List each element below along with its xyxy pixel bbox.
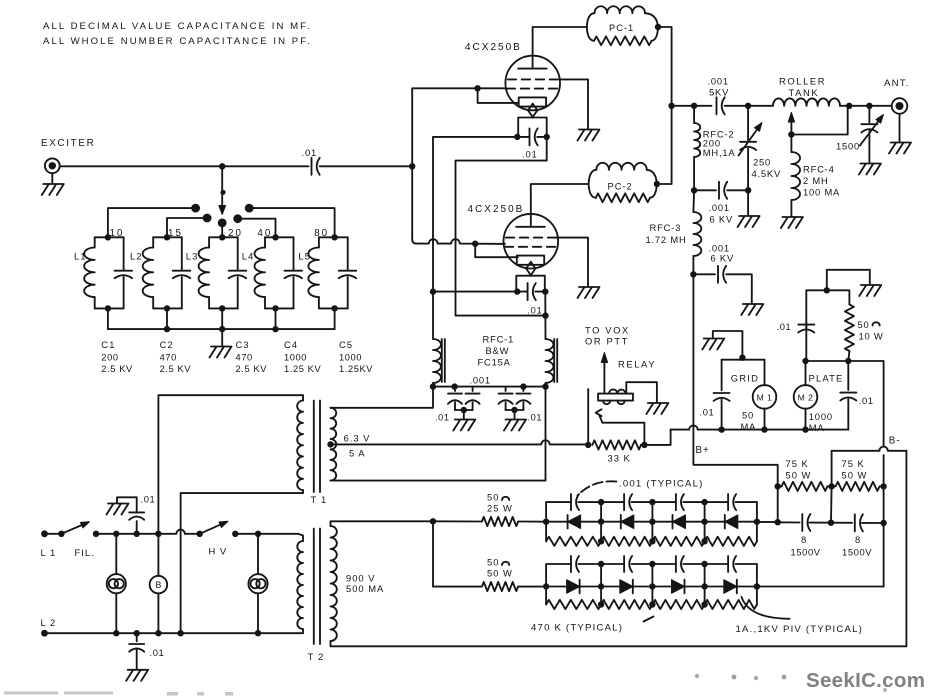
svg-text:.001: .001 bbox=[470, 375, 491, 386]
svg-text:.01: .01 bbox=[302, 148, 318, 159]
tube control grid (dashed) bbox=[507, 88, 558, 90]
wire V2 filament left lead bbox=[433, 291, 517, 293]
svg-text:5 A: 5 A bbox=[349, 448, 366, 459]
wire L1 to FIL switch bbox=[45, 533, 62, 535]
node bleeder mid bbox=[828, 483, 834, 489]
node filter mid bbox=[828, 520, 834, 526]
capacitor .01 line bypass upper bbox=[136, 521, 138, 534]
node tune cap tap bbox=[745, 103, 751, 109]
lamp I2 pilot bbox=[257, 534, 259, 574]
wire B- rail bbox=[883, 361, 885, 587]
tube V 4CX250B envelope bbox=[505, 56, 560, 111]
inductor roller tank bbox=[773, 98, 840, 105]
wire center tap bus (hop at 545.5) bbox=[331, 440, 589, 444]
svg-text:1500V: 1500V bbox=[791, 547, 821, 558]
wire V2 screen to ground bbox=[557, 238, 588, 286]
svg-text:.01: .01 bbox=[435, 413, 450, 423]
svg-text:50: 50 bbox=[487, 557, 499, 568]
transformer T2 primary winding bbox=[298, 534, 303, 541]
connector J1 EXCITER jack bbox=[45, 158, 60, 173]
svg-text:.01: .01 bbox=[859, 395, 874, 406]
svg-text:L1: L1 bbox=[74, 252, 87, 263]
node 33K left / relay bbox=[585, 442, 591, 448]
svg-text:50: 50 bbox=[858, 319, 870, 330]
svg-text:6 KV: 6 KV bbox=[711, 253, 735, 264]
svg-text:2 MH: 2 MH bbox=[803, 175, 829, 186]
capacitor .01 line bypass lower bbox=[136, 633, 138, 641]
capacitor .001 6KV bypass upper bbox=[694, 189, 716, 191]
svg-text:50: 50 bbox=[742, 410, 754, 421]
wire string right end bbox=[756, 564, 758, 605]
wire lower rectifier output to B- bbox=[757, 586, 884, 588]
svg-text:50 W: 50 W bbox=[487, 568, 513, 579]
switch contact 40 bbox=[233, 214, 242, 223]
wire V1 anode stem to PC-1 bbox=[533, 27, 587, 69]
relay contact bbox=[596, 409, 602, 416]
wire T2 secondary bottom lead bbox=[331, 451, 907, 647]
tube plate bar bbox=[518, 68, 547, 70]
wire cap to roller tank bbox=[725, 105, 773, 107]
wire rectifier resistor row (470K chain) bbox=[546, 600, 757, 609]
ground lower bypass bbox=[741, 304, 763, 315]
wire junction column bbox=[704, 502, 706, 541]
svg-text:L5: L5 bbox=[298, 252, 311, 263]
wire tank L3 to bottom bus bbox=[221, 308, 223, 329]
capacitor 8MF 1500V right bbox=[831, 522, 852, 524]
tube cathode box bbox=[517, 256, 544, 265]
svg-text:1.25KV: 1.25KV bbox=[339, 364, 373, 374]
capacitor C 250 4.5KV tune (variable) bbox=[747, 106, 749, 141]
resistor 50ohm 10W bbox=[848, 351, 849, 361]
watermark dots bbox=[695, 674, 699, 678]
ground V2 screen bbox=[578, 287, 600, 298]
transformer T1 core bbox=[314, 401, 320, 493]
diode D 1A 1KV PIV bbox=[632, 580, 634, 594]
capacitor .01 grid meter bbox=[721, 360, 723, 391]
ground line bypass upper bbox=[107, 504, 129, 515]
wire tank bottom bus bbox=[108, 328, 335, 330]
svg-text:1500V: 1500V bbox=[842, 547, 872, 558]
wire B+ diode bus to filter bbox=[757, 521, 778, 523]
transformer T2 secondary winding 900V bbox=[331, 526, 337, 641]
wire RFC-1 bottom bar bbox=[433, 386, 546, 388]
ground at exciter jack bbox=[51, 173, 53, 183]
svg-text:MA: MA bbox=[809, 422, 825, 433]
diode D 1A 1KV PIV bbox=[672, 515, 674, 529]
switch S1 pole arrow bbox=[219, 206, 226, 215]
capacitor .001 across diode 4 bbox=[705, 563, 729, 565]
svg-text:1000: 1000 bbox=[339, 353, 362, 363]
roller wiper arrow bbox=[790, 122, 792, 135]
diode D 1A 1KV PIV bbox=[724, 515, 726, 529]
transformer T1 primary lead top bbox=[158, 395, 303, 534]
node filament left join bbox=[430, 288, 436, 294]
tube filament bbox=[526, 262, 535, 269]
wire filter mid to bleeder mid bbox=[830, 486, 833, 522]
diode D 1A 1KV PIV bbox=[579, 580, 581, 594]
svg-text:B-: B- bbox=[889, 435, 901, 446]
svg-text:C2: C2 bbox=[160, 340, 174, 350]
suppressor PC-2 coil bbox=[589, 170, 597, 184]
resistor 75K 50W right bbox=[832, 482, 880, 491]
svg-text:GRID: GRID bbox=[731, 372, 759, 383]
svg-text:ALL DECIMAL VALUE CAPACITANCE: ALL DECIMAL VALUE CAPACITANCE IN MF. bbox=[43, 21, 312, 32]
wire tank L2 to bottom bus bbox=[166, 308, 168, 329]
svg-text:900 V: 900 V bbox=[346, 573, 376, 584]
wire V2 grid to cathode frame bbox=[475, 244, 517, 258]
wire string left end bbox=[545, 564, 547, 605]
svg-text:FC15A: FC15A bbox=[478, 357, 511, 368]
node plate RC top bbox=[824, 287, 830, 293]
wire relay coil to ground bbox=[626, 382, 657, 402]
lamp I1 pilot bbox=[115, 534, 117, 574]
capacitor .01 plate meter upper bbox=[805, 322, 807, 361]
switch contact 10 bbox=[191, 204, 200, 213]
wire junction column bbox=[651, 502, 653, 541]
wire V1 filament right lead bbox=[456, 137, 547, 316]
svg-text:ROLLER: ROLLER bbox=[779, 76, 826, 87]
svg-text:8: 8 bbox=[855, 534, 861, 545]
svg-text:250: 250 bbox=[753, 156, 771, 167]
wire PC-2 to plate rail bbox=[657, 106, 672, 184]
transformer T1 primary lead bottom bbox=[181, 493, 303, 633]
svg-text:50: 50 bbox=[487, 492, 499, 503]
resistor 50ohm 50W bbox=[433, 521, 482, 586]
meter B bbox=[157, 534, 159, 576]
wire plate line bbox=[672, 105, 712, 107]
capacitor .001 5KV plate blocking bbox=[716, 97, 718, 114]
choke RFC-1 right core bbox=[554, 339, 557, 382]
choke RFC-1 right winding bbox=[546, 339, 554, 383]
page caption remnant bbox=[4, 692, 233, 696]
svg-text:75 K: 75 K bbox=[842, 458, 865, 469]
node RFC-2/RFC-3 junction bbox=[691, 187, 697, 193]
wire PLATE meter top bar (B-) bbox=[806, 360, 884, 362]
wire contact80 to tank5 bbox=[249, 208, 334, 237]
wire contact20 to tank3 bbox=[221, 223, 223, 237]
svg-text:SeekIC.com: SeekIC.com bbox=[806, 669, 925, 692]
diode D 1A 1KV PIV bbox=[567, 515, 569, 529]
capacitor .001 across diode 1 bbox=[546, 501, 571, 503]
suppressor PC-1 resistor bbox=[587, 27, 594, 41]
transformer T2 core bbox=[314, 529, 320, 645]
svg-text:B+: B+ bbox=[696, 445, 710, 456]
svg-text:ANT.: ANT. bbox=[884, 78, 910, 89]
wire tank L1 to bottom bus bbox=[107, 308, 109, 329]
svg-text:B&W: B&W bbox=[486, 345, 510, 356]
svg-text:C3: C3 bbox=[236, 340, 250, 350]
terminal L2 bbox=[41, 630, 48, 637]
svg-text:200: 200 bbox=[101, 353, 118, 363]
capacitor C 1500 load (variable) bbox=[868, 106, 870, 123]
svg-text:6.3 V: 6.3 V bbox=[344, 433, 371, 444]
tube plate bar bbox=[516, 226, 545, 228]
svg-text:H V: H V bbox=[209, 546, 228, 557]
node V1 grid junction bbox=[474, 85, 480, 91]
svg-text:C5: C5 bbox=[339, 340, 353, 350]
svg-text:1.25 KV: 1.25 KV bbox=[284, 364, 321, 374]
tube screen grid (dashed) bbox=[508, 78, 559, 80]
svg-text:M 2: M 2 bbox=[798, 393, 814, 403]
svg-text:.01: .01 bbox=[141, 494, 156, 505]
wire cap to grid node bbox=[320, 165, 413, 167]
svg-text:50 W: 50 W bbox=[786, 470, 812, 481]
ground relay coil bbox=[646, 403, 668, 414]
node exciter/switch junction bbox=[219, 163, 225, 169]
svg-text:2.5 KV: 2.5 KV bbox=[236, 364, 268, 374]
svg-text:B: B bbox=[155, 580, 161, 590]
svg-text:.001: .001 bbox=[709, 202, 730, 213]
wire V1 screen to ground bbox=[560, 79, 588, 128]
capacitor .001 6KV bypass lower bbox=[693, 273, 715, 275]
svg-text:PLATE: PLATE bbox=[809, 372, 844, 383]
wire exciter line bbox=[60, 165, 309, 167]
capacitor .01 bypass pair bbox=[505, 387, 507, 391]
suppressor PC-1 coil bbox=[587, 13, 595, 27]
ground load cap bbox=[859, 164, 881, 175]
wire 6.3V top lead to RFC-1 bbox=[331, 387, 434, 408]
capacitor C5 tank cap bbox=[347, 237, 349, 269]
svg-text:4CX250B: 4CX250B bbox=[465, 42, 522, 53]
node HV switch output bbox=[232, 531, 238, 537]
terminal L1 bbox=[41, 530, 48, 537]
wire tank L3 top/bottom edges bbox=[209, 236, 238, 238]
wire junction column bbox=[651, 564, 653, 605]
node grid top bbox=[739, 355, 745, 361]
wire relay contact to 33K bbox=[600, 416, 645, 445]
ground line bypass lower bbox=[126, 670, 148, 681]
svg-text:100 MA: 100 MA bbox=[803, 187, 840, 198]
ground grid return bbox=[702, 339, 724, 350]
choke RFC-1 left winding bbox=[433, 339, 441, 383]
wire rectifier diode row bbox=[546, 586, 757, 588]
switch HV blade bbox=[197, 531, 203, 537]
leader .001 typical bbox=[578, 481, 617, 495]
capacitor .01 bypass pair bbox=[454, 387, 456, 391]
transformer T1 secondary winding 6.3V bbox=[331, 408, 337, 481]
inductor L2 tank coil bbox=[152, 237, 154, 247]
wire L2 bus bbox=[45, 632, 299, 634]
svg-text:.01: .01 bbox=[700, 407, 715, 418]
capacitor .001 across diode 3 bbox=[652, 563, 676, 565]
svg-text:RELAY: RELAY bbox=[618, 358, 656, 369]
inductor L1 tank coil bbox=[94, 237, 96, 247]
ground V1 screen bbox=[578, 130, 600, 141]
wire junction column bbox=[704, 564, 706, 605]
svg-text:TO VOX: TO VOX bbox=[585, 324, 630, 335]
wire HV to T2 primary bbox=[235, 533, 298, 535]
capacitor C4 tank cap bbox=[293, 237, 295, 269]
node roller wiper bbox=[788, 131, 794, 137]
meter M2 plate 1000MA bbox=[805, 361, 807, 385]
tube filament bbox=[528, 104, 537, 111]
capacitor C6 .01 coupling bbox=[311, 158, 313, 175]
suppressor PC-2 resistor bbox=[589, 184, 596, 198]
svg-text:.01: .01 bbox=[150, 647, 165, 658]
capacitor .01 plate meter lower bbox=[847, 361, 849, 390]
ground tune cap bbox=[747, 190, 749, 215]
tube V 4CX250B envelope bbox=[504, 214, 559, 269]
svg-text:L 1: L 1 bbox=[41, 547, 57, 558]
wire T2 secondary top lead bbox=[331, 521, 434, 526]
node PC-2 output bbox=[654, 181, 660, 187]
wire roller output bbox=[849, 105, 891, 107]
switch S1 selected contact 20 bbox=[218, 219, 227, 228]
svg-text:L3: L3 bbox=[186, 252, 199, 263]
diode D 1A 1KV PIV bbox=[620, 515, 622, 529]
capacitor .01 filament bypass bbox=[527, 283, 529, 300]
tube cathode box bbox=[519, 97, 546, 106]
choke RFC-3 bbox=[692, 190, 695, 212]
svg-text:L4: L4 bbox=[242, 252, 255, 263]
wire V2 anode stem to PC-2 bbox=[531, 184, 589, 227]
inductor L4 tank coil bbox=[264, 237, 266, 247]
wire V1 filament left lead bbox=[433, 137, 517, 339]
svg-text:10 W: 10 W bbox=[859, 331, 884, 342]
svg-text:M 1: M 1 bbox=[757, 393, 773, 403]
capacitor .01 filament bypass bbox=[529, 128, 531, 145]
switch FIL blade bbox=[61, 525, 81, 534]
svg-text:8: 8 bbox=[801, 534, 807, 545]
wire tank L5 top/bottom edges bbox=[319, 236, 348, 238]
resistor 75K 50W left bbox=[778, 482, 828, 491]
meter M1 grid 50MA bbox=[764, 360, 766, 386]
svg-text:L 2: L 2 bbox=[41, 617, 57, 628]
choke RFC-2 bbox=[693, 106, 695, 123]
svg-text:75 K: 75 K bbox=[786, 458, 809, 469]
wire string right end bbox=[756, 502, 758, 541]
wire tank L2 top/bottom edges bbox=[153, 236, 182, 238]
capacitor .001 across diode 2 bbox=[601, 563, 624, 565]
svg-text:2.5 KV: 2.5 KV bbox=[101, 364, 133, 374]
svg-text:1000: 1000 bbox=[809, 411, 833, 422]
node RFC-3 lower junction bbox=[690, 271, 696, 277]
wire rectifier resistor row (470K chain) bbox=[546, 537, 757, 546]
diode D 1A 1KV PIV bbox=[736, 580, 738, 594]
svg-text:PC-2: PC-2 bbox=[608, 182, 633, 192]
inductor L5 tank coil bbox=[318, 237, 320, 247]
leader 1A typical bbox=[742, 597, 790, 619]
svg-text:500 MA: 500 MA bbox=[346, 583, 384, 594]
wire contact15 to tank2 bbox=[167, 218, 207, 237]
node bleeder right (B-) bbox=[880, 483, 886, 489]
node bleeder left (B+) bbox=[775, 483, 781, 489]
svg-text:4.5KV: 4.5KV bbox=[752, 168, 782, 179]
svg-text:1500: 1500 bbox=[836, 141, 860, 152]
svg-text:1000: 1000 bbox=[284, 353, 307, 363]
ground ANT jack bbox=[899, 114, 901, 142]
capacitor C2 tank cap bbox=[181, 237, 183, 269]
wire filament bus (hop at 180.6) bbox=[96, 530, 200, 534]
svg-text:470: 470 bbox=[236, 353, 253, 363]
svg-text:ALL WHOLE NUMBER CAPACITANCE I: ALL WHOLE NUMBER CAPACITANCE IN PF. bbox=[43, 36, 312, 47]
svg-text:.01: .01 bbox=[777, 321, 792, 332]
switch S1 pole wire bbox=[221, 166, 223, 205]
wire rectifier diode row bbox=[546, 521, 757, 523]
tube screen grid (dashed) bbox=[506, 237, 557, 239]
node plate rail junction bbox=[668, 103, 674, 109]
svg-text:PC-1: PC-1 bbox=[609, 23, 634, 33]
relay K1 coil bbox=[598, 394, 633, 401]
capacitor C3 tank cap bbox=[237, 237, 239, 269]
wire junction column bbox=[600, 502, 602, 541]
svg-text:.01: .01 bbox=[522, 150, 538, 161]
relay coil arrow to VOX bbox=[603, 363, 605, 393]
svg-text:1A.,1KV PIV (TYPICAL): 1A.,1KV PIV (TYPICAL) bbox=[736, 624, 864, 635]
node V2 grid junction bbox=[472, 241, 478, 247]
wire wiper to output bbox=[791, 106, 847, 135]
svg-text:L2: L2 bbox=[130, 252, 143, 263]
svg-text:RFC-4: RFC-4 bbox=[803, 164, 835, 175]
wire filament cap bar bbox=[518, 136, 529, 138]
wire PC-1 to plate rail bbox=[658, 27, 672, 106]
transformer T1 primary winding bbox=[302, 395, 304, 400]
wire GRID meter top bar bbox=[722, 359, 765, 361]
capacitor 8MF 1500V left bbox=[778, 521, 800, 523]
resistor 33K bbox=[592, 440, 641, 449]
wire tank L4 top/bottom edges bbox=[265, 236, 294, 238]
inductor L3 tank coil bbox=[208, 237, 210, 247]
svg-text:C4: C4 bbox=[284, 340, 298, 350]
wire contact10 to tank1 bbox=[108, 208, 196, 237]
capacitor C1 tank cap bbox=[123, 237, 125, 269]
node T1 center tap bbox=[327, 441, 333, 447]
tube control grid (dashed) bbox=[505, 246, 556, 248]
switch contact 15 bbox=[203, 214, 212, 223]
svg-text:25 W: 25 W bbox=[487, 503, 513, 514]
wire doubler midpoint link (hop at 883.6) bbox=[832, 447, 907, 451]
wire junction column bbox=[600, 564, 602, 605]
svg-text:.01: .01 bbox=[528, 413, 543, 423]
node grid feed junction bbox=[409, 163, 415, 169]
tube filament frame bbox=[516, 276, 545, 292]
ground bypass pair bbox=[463, 410, 465, 419]
svg-text:50 W: 50 W bbox=[842, 470, 868, 481]
node B- filter end bbox=[880, 520, 886, 526]
svg-text:EXCITER: EXCITER bbox=[41, 138, 95, 149]
wire contact40 to tank4 bbox=[238, 219, 276, 238]
choke RFC-1 left core bbox=[442, 339, 445, 382]
wire V1 grid to cathode frame bbox=[478, 88, 519, 103]
ground RFC-4 bbox=[781, 217, 803, 228]
svg-text:1.72 MH: 1.72 MH bbox=[646, 234, 687, 245]
node 33K right bbox=[641, 442, 647, 448]
svg-text:470 K (TYPICAL): 470 K (TYPICAL) bbox=[531, 622, 623, 633]
tube filament frame bbox=[518, 118, 547, 137]
relay armature bbox=[587, 389, 589, 445]
node filament right join bbox=[542, 312, 548, 318]
wire filament cap bar bbox=[516, 291, 527, 293]
capacitor .001 across diode 3 bbox=[652, 501, 676, 503]
svg-text:RFC-3: RFC-3 bbox=[650, 222, 682, 233]
wire tank L5 to bottom bus bbox=[334, 308, 336, 329]
svg-text:4CX250B: 4CX250B bbox=[468, 204, 525, 215]
svg-text:2.5 KV: 2.5 KV bbox=[160, 364, 192, 374]
svg-text:470: 470 bbox=[160, 353, 177, 363]
svg-text:.001 (TYPICAL): .001 (TYPICAL) bbox=[619, 479, 704, 490]
svg-text:6 KV: 6 KV bbox=[710, 214, 734, 225]
capacitor .001 across diode 1 bbox=[546, 563, 571, 565]
wire 33K to meter bus (hop at 693.4) bbox=[644, 430, 670, 445]
node tune/bypass junction bbox=[745, 187, 751, 193]
svg-text:FIL.: FIL. bbox=[75, 547, 95, 558]
ground bypass pair bbox=[514, 410, 516, 419]
wire tank L4 to bottom bus bbox=[275, 308, 277, 329]
node rectifier feed split bbox=[430, 518, 436, 524]
resistor 50ohm 25W bbox=[433, 520, 482, 522]
node RFC-2 tap bbox=[691, 103, 697, 109]
capacitor .001 across diode 2 bbox=[601, 501, 624, 503]
